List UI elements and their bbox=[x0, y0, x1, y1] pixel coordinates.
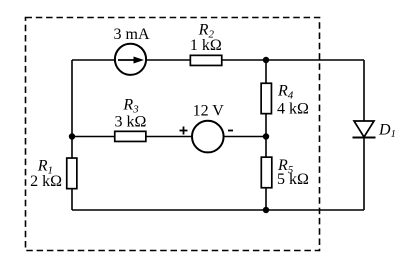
resistor R3 bbox=[115, 131, 146, 141]
resistor R1 bbox=[67, 158, 77, 189]
wire bottom horizontal bbox=[72, 209, 364, 211]
minus sign bbox=[228, 130, 233, 132]
node dot bottom-right inner bbox=[263, 207, 269, 213]
diode D1 bbox=[353, 121, 376, 138]
node dot middle-right inner bbox=[263, 133, 269, 139]
wire inner right vertical bbox=[265, 60, 267, 210]
svg-text:3 mA: 3 mA bbox=[114, 26, 150, 43]
resistor R2 bbox=[190, 55, 221, 65]
node dot left-middle bbox=[69, 133, 75, 139]
plus sign bbox=[180, 127, 188, 135]
wire left vertical bbox=[71, 60, 73, 210]
current source I1 3 mA bbox=[115, 44, 146, 75]
wire right outer vertical bbox=[363, 60, 365, 210]
svg-text:4 kΩ: 4 kΩ bbox=[277, 100, 309, 117]
svg-text:12 V: 12 V bbox=[193, 102, 225, 119]
svg-text:1 kΩ: 1 kΩ bbox=[190, 37, 222, 54]
resistor R4 bbox=[261, 83, 271, 113]
dashed boundary box bbox=[26, 18, 320, 251]
resistor R5 bbox=[261, 157, 272, 188]
voltage source V1 12 V bbox=[192, 121, 224, 153]
node dot top-right inner bbox=[263, 57, 269, 63]
wire middle horizontal bbox=[72, 136, 266, 138]
wire top horizontal bbox=[72, 59, 364, 61]
svg-text:3 kΩ: 3 kΩ bbox=[115, 113, 147, 130]
svg-text:5 kΩ: 5 kΩ bbox=[277, 171, 309, 188]
svg-text:2 kΩ: 2 kΩ bbox=[30, 173, 62, 190]
